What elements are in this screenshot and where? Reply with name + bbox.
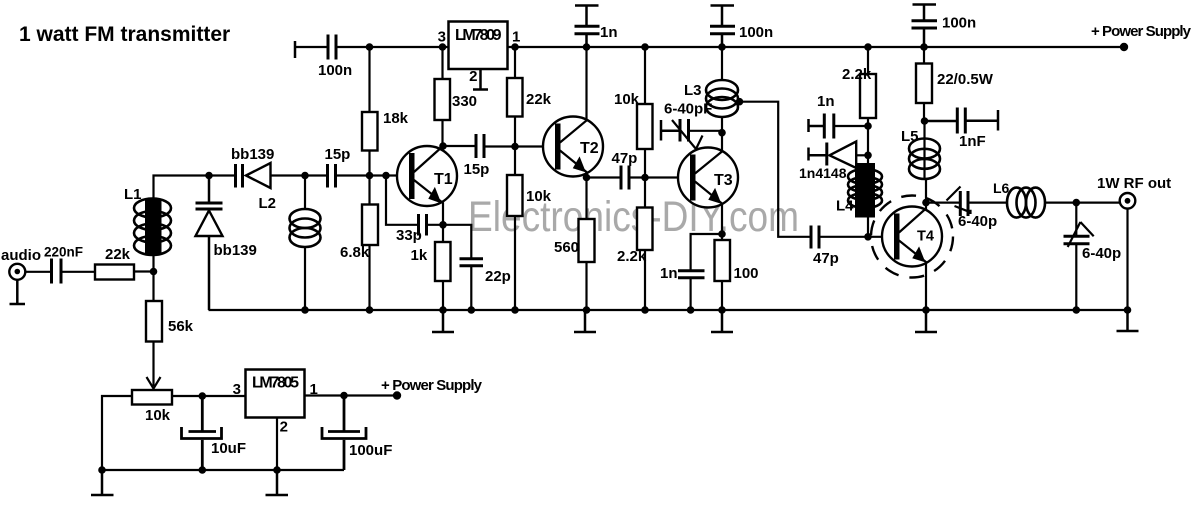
node: T1 collector junction bbox=[439, 142, 447, 150]
node: L2 junction on signal line bbox=[301, 172, 309, 180]
resistor 22k (T2 base from rail) bbox=[514, 47, 516, 78]
node: 18k/6.8k junction on T1 base line bbox=[366, 172, 374, 180]
capacitor 33p (T1 feedback) bbox=[386, 176, 419, 225]
node: 1n junction (T4 bias) bbox=[864, 122, 872, 130]
svg-text:1 watt FM transmitter: 1 watt FM transmitter bbox=[19, 23, 230, 46]
svg-text:47p: 47p bbox=[813, 250, 839, 267]
resistor 10k (T2 base to ground) bbox=[514, 147, 516, 176]
svg-text:10k: 10k bbox=[526, 188, 552, 205]
capacitor 1n (T4 bias, open end) bbox=[809, 114, 869, 139]
svg-text:1W RF out: 1W RF out bbox=[1097, 175, 1171, 192]
resistor 22/0.5W bbox=[923, 47, 925, 64]
svg-text:2.2k: 2.2k bbox=[617, 248, 647, 265]
svg-text:220nF: 220nF bbox=[44, 245, 83, 260]
potentiometer 10k bbox=[132, 390, 172, 405]
capacitor 47p (T4 base coupling) bbox=[811, 226, 819, 249]
svg-text:6-40p: 6-40p bbox=[958, 213, 997, 230]
svg-text:100uF: 100uF bbox=[349, 442, 392, 459]
inductor L6 (horizontal) bbox=[1007, 188, 1045, 218]
node: rail junction 18k column bbox=[366, 43, 374, 51]
node: T2 base junction bbox=[511, 143, 519, 151]
node: 100uF junction bbox=[340, 392, 348, 400]
svg-text:10uF: 10uF bbox=[211, 440, 246, 457]
svg-text:1nF: 1nF bbox=[959, 133, 986, 150]
node: bottom-left ground node bbox=[98, 466, 106, 474]
wire L2 junction to 15p bbox=[305, 174, 328, 176]
inductor L3 (from rail) bbox=[721, 47, 723, 81]
node: output trimmer on ground rail bbox=[1073, 306, 1081, 314]
wire 330 to T1 collector node bbox=[441, 120, 443, 146]
resistor 2.2k (T3 base to ground) bbox=[644, 178, 646, 208]
svg-text:22k: 22k bbox=[526, 91, 552, 108]
svg-text:1k: 1k bbox=[411, 247, 428, 264]
RF out connector bbox=[1120, 193, 1136, 209]
node: RF out on ground rail bbox=[1124, 306, 1132, 314]
svg-text:1n: 1n bbox=[660, 265, 678, 282]
inductor L4 (with ferrite core) bbox=[848, 169, 882, 208]
ground stub below 1k node bbox=[432, 310, 454, 332]
varactor bb139 (horizontal, series) bbox=[209, 174, 235, 176]
wire 18k to base line bbox=[368, 151, 370, 176]
transistor T2 bbox=[543, 47, 603, 178]
svg-text:1: 1 bbox=[512, 29, 520, 46]
node: 1k on ground rail bbox=[439, 306, 447, 314]
shield dashed circle around T4 bbox=[871, 196, 953, 278]
node: pin2 on ground wire bbox=[273, 466, 281, 474]
svg-text:T3: T3 bbox=[714, 172, 733, 189]
node: 22p on ground rail bbox=[468, 306, 476, 314]
wire 220nF to 22k bbox=[61, 271, 95, 273]
node: varactor junction on signal line bbox=[205, 172, 213, 180]
node: T4 base junction bbox=[864, 233, 872, 241]
svg-text:3: 3 bbox=[438, 29, 446, 46]
node: 1n T3 on ground rail bbox=[687, 306, 695, 314]
svg-text:+ Power Supply: + Power Supply bbox=[1091, 23, 1192, 40]
svg-text:LM7805: LM7805 bbox=[252, 375, 299, 392]
svg-text:47p: 47p bbox=[612, 150, 638, 167]
capacitor 1n (T3 emitter bypass) bbox=[691, 234, 722, 270]
svg-text:T4: T4 bbox=[917, 229, 934, 245]
svg-text:100: 100 bbox=[734, 265, 759, 282]
wire 6.8k to ground rail bbox=[368, 245, 370, 310]
node: audio junction bbox=[150, 268, 158, 276]
wire LM7805 pin1 to +supply terminal bbox=[305, 394, 398, 396]
ground stub below 100 node bbox=[711, 310, 733, 332]
svg-text:1n4148: 1n4148 bbox=[799, 165, 847, 181]
svg-text:100n: 100n bbox=[318, 62, 352, 79]
resistor 6.8k bbox=[368, 176, 370, 205]
wire 1k to ground rail bbox=[442, 281, 444, 310]
resistor 330 bbox=[441, 47, 443, 79]
node: output trimmer junction bbox=[1073, 199, 1081, 207]
svg-text:6.8k: 6.8k bbox=[340, 244, 370, 261]
node: T3 collector / trimmer junction bbox=[718, 129, 726, 137]
svg-text:330: 330 bbox=[452, 93, 477, 110]
wire L3 bottom to T3 collector node bbox=[721, 118, 723, 152]
svg-text:L5: L5 bbox=[901, 128, 919, 145]
ground stub below 560 node bbox=[574, 310, 596, 332]
svg-text:22k: 22k bbox=[105, 246, 131, 263]
node: 33p junction on T1 base line bbox=[382, 172, 390, 180]
capacitor 15p (T1-T2 coupling) bbox=[476, 134, 484, 158]
node: rail junction 2.2k T4 column bbox=[864, 43, 872, 51]
svg-text:56k: 56k bbox=[168, 318, 194, 335]
wire L6 to RF out bbox=[1045, 202, 1120, 204]
node: rail junction T2 collector / 1n bbox=[583, 43, 591, 51]
capacitor 22p bbox=[443, 225, 471, 258]
svg-text:15p: 15p bbox=[464, 161, 490, 178]
wire pot left to ground rail bbox=[102, 396, 132, 470]
svg-text:18k: 18k bbox=[383, 110, 409, 127]
resistor 100 (T3 emitter) bbox=[721, 234, 723, 240]
svg-text:bb139: bb139 bbox=[214, 242, 257, 259]
regulator U1 LM7809 bbox=[449, 22, 508, 70]
capacitor 100n (series in top rail) bbox=[328, 35, 336, 60]
node: 10uF bottom on ground wire bbox=[199, 466, 207, 474]
trimmer capacitor 6-40pF (T3 collector) bbox=[661, 119, 722, 149]
bottom ground wire (LM7805 section) bbox=[102, 469, 344, 471]
resistor 10k (T3 base from rail) bbox=[644, 47, 646, 104]
svg-text:33p: 33p bbox=[396, 227, 422, 244]
node: rail junction L3 / 100n bbox=[718, 43, 726, 51]
svg-text:L3: L3 bbox=[684, 82, 702, 99]
svg-text:100n: 100n bbox=[942, 15, 976, 32]
diode 1n4148 bbox=[809, 143, 869, 166]
wire 56k to potentiometer arrow bbox=[152, 342, 154, 387]
capacitor 10uF (electrolytic) bbox=[182, 396, 222, 470]
potentiometer wiper arrow bbox=[147, 377, 161, 389]
wire L4 to T4 base node bbox=[867, 218, 869, 237]
bottom ground rail wire bbox=[209, 309, 1128, 311]
open terminal T-bar at left of top rail bbox=[294, 41, 297, 58]
svg-text:2: 2 bbox=[469, 68, 477, 85]
regulator U2 LM7805 bbox=[246, 370, 305, 418]
capacitor 100uF (electrolytic) bbox=[322, 396, 366, 471]
capacitor 15p (series on signal line) bbox=[328, 164, 336, 188]
resistor 560 bbox=[585, 178, 587, 220]
wire audio to 220nF bbox=[17, 270, 51, 272]
svg-text:22/0.5W: 22/0.5W bbox=[937, 71, 994, 88]
capacitor 1n (bypass above rail) bbox=[575, 6, 600, 48]
ground below bottom-left node bbox=[91, 470, 114, 495]
resistor 1k bbox=[442, 225, 444, 242]
capacitor 100n (bypass above rail, right) bbox=[912, 5, 938, 48]
node: rail junction 10k T3 column bbox=[641, 43, 649, 51]
node: 22/0.5W / 1nF junction bbox=[921, 117, 929, 125]
node: L3 output tap bbox=[736, 98, 744, 106]
audio input connector bbox=[9, 264, 25, 280]
pin 2 stub and ground LM7809 bbox=[473, 69, 488, 90]
node: T3 base junction bbox=[641, 174, 649, 182]
svg-text:T2: T2 bbox=[580, 140, 599, 157]
node: 100 on ground rail bbox=[718, 306, 726, 314]
wire L2 bottom to ground rail bbox=[304, 247, 306, 310]
node: 2.2k T3 on ground rail bbox=[641, 306, 649, 314]
varactor bb139 (vertical) bbox=[196, 176, 223, 311]
ground stub below RF out node bbox=[1117, 310, 1139, 331]
resistor 2.2k (T4 bias from rail) bbox=[867, 47, 869, 74]
svg-text:6-40p: 6-40p bbox=[1082, 245, 1121, 262]
svg-text:L4: L4 bbox=[836, 198, 854, 215]
svg-text:10k: 10k bbox=[614, 91, 640, 108]
node: T4 collector junction bbox=[922, 199, 930, 207]
wire pot right to LM7805 pin 3 bbox=[172, 395, 246, 397]
svg-text:bb139: bb139 bbox=[231, 146, 274, 163]
svg-text:L1: L1 bbox=[124, 186, 142, 203]
ground stub below T4 node bbox=[915, 310, 937, 332]
svg-text:15p: 15p bbox=[325, 146, 351, 163]
inductor L5 bbox=[925, 121, 927, 203]
node: rail junction pin1/22k bbox=[511, 43, 519, 51]
node: T3 emitter junction bbox=[718, 230, 726, 238]
node: 560 on ground rail bbox=[583, 306, 591, 314]
node: T2 emitter junction bbox=[583, 174, 591, 182]
svg-text:T1: T1 bbox=[434, 171, 453, 188]
capacitor 1nF (open end) bbox=[925, 108, 999, 134]
svg-text:2: 2 bbox=[280, 419, 288, 436]
node: T1 emitter junction bbox=[439, 221, 447, 229]
wire 22k to junction bbox=[134, 270, 154, 272]
node: T4 emitter on ground rail bbox=[922, 306, 930, 314]
ground below audio connector bbox=[10, 280, 26, 304]
wire 15p to T1 base bbox=[336, 174, 410, 176]
trimmer capacitor 6-40p (T4 collector out) bbox=[926, 187, 1007, 217]
capacitor 220nF bbox=[52, 259, 62, 284]
capacitor 47p (T2-T3 coupling) bbox=[587, 176, 622, 178]
trimmer capacitor 6-40p (output, to ground) bbox=[1064, 203, 1094, 310]
inductor L1 (with ferrite core) bbox=[134, 199, 171, 256]
node: + power supply terminal (top right) bbox=[1120, 43, 1128, 51]
wire junction down to 56k bbox=[152, 272, 154, 302]
wire RF out down to ground rail bbox=[1126, 209, 1128, 310]
svg-text:560: 560 bbox=[554, 239, 579, 256]
node: + power supply terminal (bottom) bbox=[393, 391, 401, 399]
svg-text:LM7809: LM7809 bbox=[455, 27, 502, 44]
svg-text:22p: 22p bbox=[485, 268, 511, 285]
svg-text:audio: audio bbox=[1, 247, 41, 264]
node: rail junction pin3/330 bbox=[439, 43, 447, 51]
svg-text:1n: 1n bbox=[600, 24, 618, 41]
svg-text:2.2k: 2.2k bbox=[842, 66, 872, 83]
svg-text:1n: 1n bbox=[817, 93, 835, 110]
transistor T1 bbox=[397, 146, 457, 225]
capacitor 100n (bypass above rail, L3 column) bbox=[710, 6, 735, 48]
node: L2 on ground rail bbox=[301, 306, 309, 314]
svg-text:6-40pF: 6-40pF bbox=[664, 101, 712, 118]
svg-text:+ Power Supply: + Power Supply bbox=[381, 377, 483, 394]
node: 10k T2 on ground rail bbox=[511, 306, 519, 314]
ground below pin2 node bbox=[266, 470, 289, 495]
wire L1 bottom to junction / top to signal line bbox=[154, 176, 210, 272]
svg-text:10k: 10k bbox=[145, 407, 171, 424]
svg-text:L2: L2 bbox=[259, 195, 277, 212]
node: 10uF junction bbox=[199, 392, 207, 400]
wire 15p to T2 base bbox=[484, 145, 555, 147]
node: 6.8k on ground rail bbox=[366, 306, 374, 314]
node: rail junction 22/0.5W / 100n bbox=[920, 43, 928, 51]
svg-text:3: 3 bbox=[233, 381, 241, 398]
node: diode junction (T4 bias) bbox=[864, 152, 872, 160]
resistor 22k (audio) bbox=[95, 265, 134, 280]
svg-text:100n: 100n bbox=[739, 24, 773, 41]
wire L3 tap to T4 coupling line bbox=[738, 102, 811, 237]
resistor 18k bbox=[368, 47, 370, 112]
transistor T3 bbox=[678, 148, 738, 235]
inductor L2 bbox=[304, 176, 306, 210]
pin 2 stub LM7805 to ground wire bbox=[276, 418, 278, 471]
transistor T4 bbox=[882, 203, 942, 310]
resistor 56k bbox=[146, 301, 162, 342]
top +V rail wire bbox=[295, 46, 1124, 48]
svg-text:L6: L6 bbox=[993, 180, 1010, 196]
wire collector node to 15p bbox=[443, 145, 476, 147]
